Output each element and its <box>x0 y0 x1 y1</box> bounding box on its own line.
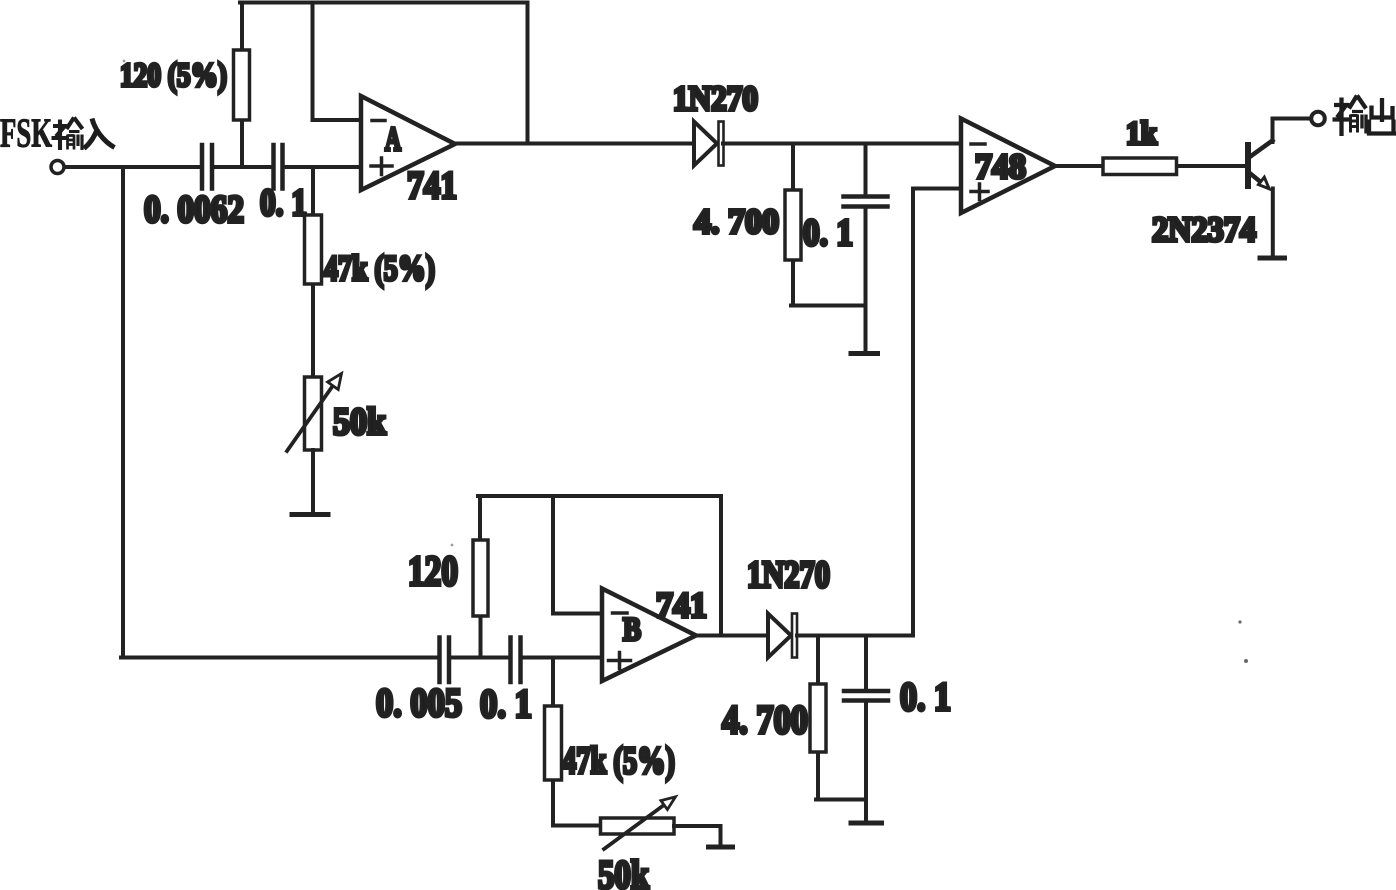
svg-text:47k (5%): 47k (5%) <box>324 248 435 288</box>
wire op-amp B output <box>696 634 768 638</box>
wire inner feedback to inverting input A <box>313 3 362 121</box>
svg-text:50k: 50k <box>333 401 387 443</box>
wire left long vertical to lower channel <box>121 167 438 658</box>
svg-text:0. 1: 0. 1 <box>803 212 853 254</box>
svg-text:1k: 1k <box>1126 116 1158 152</box>
capacitor C6 0.1 <box>864 636 868 692</box>
svg-text:50k: 50k <box>598 852 650 890</box>
glyph 入 <box>84 119 115 149</box>
wire 748 non-inverting input down to lower channel <box>913 189 961 636</box>
svg-text:120: 120 <box>408 549 458 595</box>
wire feedback vertical B output <box>719 496 723 636</box>
svg-text:748: 748 <box>975 147 1026 186</box>
resistor R2 47k(5%) <box>311 167 315 377</box>
capacitor C3 0.1 <box>864 144 868 197</box>
svg-text:0. 1: 0. 1 <box>480 681 532 726</box>
glyph 输 <box>1333 96 1367 137</box>
svg-text:1N270: 1N270 <box>673 79 758 118</box>
wire top feedback rail A <box>240 1 528 5</box>
wire op-amp A output <box>455 142 694 146</box>
ground (50k A) <box>292 512 328 517</box>
wire emitter to ground <box>1271 189 1275 257</box>
capacitor C2 0.1 <box>271 145 276 189</box>
potentiometer R3 50k <box>305 377 322 450</box>
transistor Q1 2N2374 <box>1245 145 1251 186</box>
svg-text:B: B <box>623 612 641 648</box>
svg-text:4. 700: 4. 700 <box>722 697 808 742</box>
resistor R9 4.700 <box>816 636 866 800</box>
glyph 出 <box>1369 98 1396 134</box>
ground (emitter Q1) <box>1260 256 1285 261</box>
label 输出 <box>1333 96 1396 137</box>
svg-text:0. 0062: 0. 0062 <box>144 188 244 231</box>
wire diode A to 748 <box>723 142 961 146</box>
scan specks (noise dots from original) <box>123 60 1248 663</box>
capacitor C5 0.1 <box>508 638 513 683</box>
wire input horizontal A <box>65 165 201 169</box>
wire collector to output terminal <box>1273 119 1312 143</box>
resistor R1 120(5%) <box>240 3 244 168</box>
svg-text:4. 700: 4. 700 <box>694 202 779 241</box>
wire top feedback rail B <box>478 494 721 498</box>
glyph 输 <box>52 118 83 151</box>
svg-text:A: A <box>385 121 401 158</box>
resistor R5 1k <box>1055 164 1246 168</box>
wire feedback vertical A output <box>526 3 530 144</box>
resistor R4 4.700 <box>791 144 866 306</box>
op-amp U1 741 A <box>361 96 455 190</box>
node: FSK input terminal <box>51 161 64 174</box>
potentiometer R8 50k <box>553 824 601 828</box>
svg-text:741: 741 <box>407 164 457 207</box>
wire inner feedback to inverting input B <box>553 496 602 614</box>
wire diode B to junction <box>797 634 913 638</box>
op-amp U2 748 <box>961 119 1055 214</box>
svg-text:FSK: FSK <box>0 110 52 156</box>
svg-text:2N2374: 2N2374 <box>1152 210 1256 249</box>
svg-text:741: 741 <box>656 585 707 625</box>
resistor R6 120 <box>478 496 483 658</box>
ground (C6) <box>851 821 882 826</box>
node: output terminal <box>1311 112 1325 126</box>
capacitor C1 0.0062 <box>200 145 205 189</box>
ground (C3) <box>851 351 878 356</box>
svg-text:0. 005: 0. 005 <box>376 680 462 725</box>
capacitor C4 0.005 <box>437 638 442 683</box>
op-amp U3 741 B <box>602 589 696 682</box>
wire lower channel mid <box>452 656 509 660</box>
resistor R7 47k(5%) <box>551 658 555 826</box>
svg-text:0. 1: 0. 1 <box>260 182 307 224</box>
svg-text:1N270: 1N270 <box>747 554 830 596</box>
diode D1 1N270 <box>694 122 717 166</box>
svg-text:120 (5%): 120 (5%) <box>120 57 227 94</box>
diode D2 1N270 <box>768 614 791 658</box>
svg-text:0. 1: 0. 1 <box>900 674 951 719</box>
ground (50k B) <box>709 845 733 850</box>
svg-text:47k (5%): 47k (5%) <box>562 740 675 782</box>
